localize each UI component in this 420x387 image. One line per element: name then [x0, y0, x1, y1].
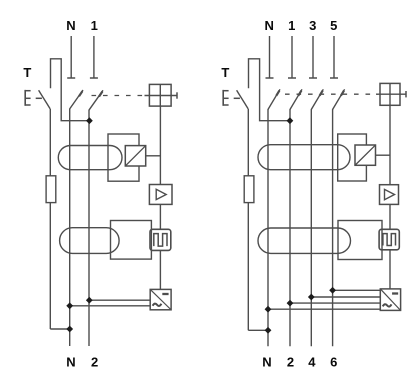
svg-text:6: 6: [330, 354, 337, 369]
svg-text:N: N: [66, 18, 75, 33]
svg-text:4: 4: [308, 354, 316, 369]
svg-text:T: T: [221, 65, 229, 80]
svg-text:N: N: [262, 354, 271, 369]
svg-text:3: 3: [309, 18, 316, 33]
svg-text:T: T: [23, 65, 31, 80]
svg-text:N: N: [265, 18, 274, 33]
svg-text:5: 5: [330, 18, 337, 33]
svg-text:1: 1: [91, 18, 98, 33]
svg-text:2: 2: [91, 354, 98, 369]
svg-text:N: N: [66, 354, 75, 369]
svg-text:2: 2: [287, 354, 294, 369]
svg-text:1: 1: [288, 18, 295, 33]
